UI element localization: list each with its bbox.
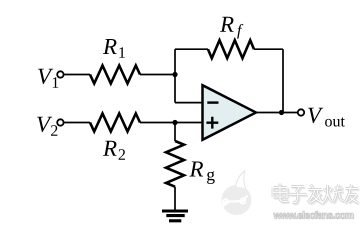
- wire feedback top right: [254, 48, 283, 50]
- node B junction dot: [172, 120, 177, 125]
- op-amp minus sign: [207, 101, 218, 103]
- resistor Rg: [166, 141, 184, 187]
- label Rf: [220, 17, 243, 39]
- wire node B down to Rg: [174, 123, 176, 142]
- wire V1 terminal to R1: [64, 74, 90, 76]
- wire node A vertical (feedback left leg down to inverting input): [174, 49, 176, 102]
- node A junction dot: [172, 72, 177, 77]
- label R2: [103, 141, 125, 160]
- watermark url www.elecfans.com: [274, 212, 354, 219]
- wire feedback right leg: [282, 49, 284, 112]
- wire R1 to node A: [140, 74, 175, 76]
- wire V2 terminal to R2: [64, 122, 90, 124]
- watermark logo circle: [219, 171, 252, 217]
- wire Rg to ground: [174, 187, 176, 211]
- label Rg: [189, 161, 214, 184]
- wire to inverting input: [175, 102, 203, 104]
- wire op-amp output: [255, 112, 298, 114]
- wire feedback top left: [175, 48, 208, 50]
- terminal Vout: [298, 109, 304, 115]
- label V2: [37, 117, 57, 136]
- label R1: [103, 39, 125, 58]
- label V1: [38, 69, 58, 88]
- resistor Rf: [208, 40, 254, 58]
- output junction dot: [279, 110, 284, 115]
- terminal V2: [57, 119, 63, 125]
- label Vout: [308, 108, 345, 127]
- op-amp plus sign: [206, 117, 218, 129]
- wire R2 to non-inverting input: [140, 122, 203, 124]
- op-amp U1: [203, 85, 257, 140]
- resistor R2: [90, 114, 140, 132]
- terminal V1: [57, 71, 63, 77]
- ground: [162, 211, 188, 221]
- resistor R1: [90, 66, 140, 84]
